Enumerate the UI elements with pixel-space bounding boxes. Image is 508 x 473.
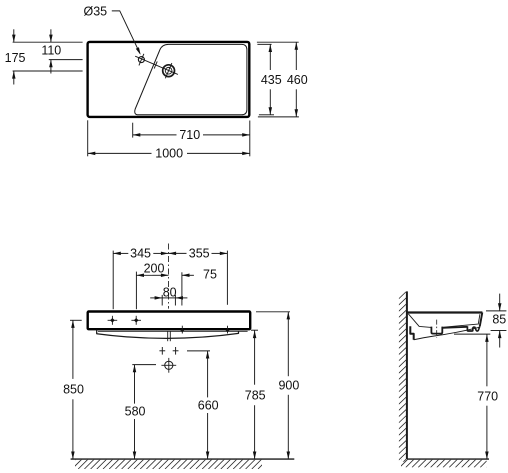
svg-text:900: 900 — [278, 379, 299, 393]
svg-text:75: 75 — [203, 267, 217, 281]
svg-text:Ø35: Ø35 — [83, 5, 107, 19]
svg-text:1000: 1000 — [155, 147, 183, 161]
svg-text:345: 345 — [130, 247, 151, 261]
svg-text:175: 175 — [5, 51, 26, 65]
svg-text:660: 660 — [198, 399, 219, 413]
svg-text:710: 710 — [179, 128, 200, 142]
svg-text:770: 770 — [477, 390, 498, 404]
svg-text:785: 785 — [245, 388, 266, 402]
svg-text:850: 850 — [63, 382, 84, 396]
svg-text:460: 460 — [287, 73, 308, 87]
svg-text:110: 110 — [41, 44, 61, 58]
svg-text:580: 580 — [125, 405, 146, 419]
svg-text:80: 80 — [163, 285, 177, 299]
svg-text:435: 435 — [261, 73, 282, 87]
svg-text:85: 85 — [492, 312, 506, 326]
svg-text:355: 355 — [189, 247, 210, 261]
svg-text:200: 200 — [144, 262, 165, 276]
